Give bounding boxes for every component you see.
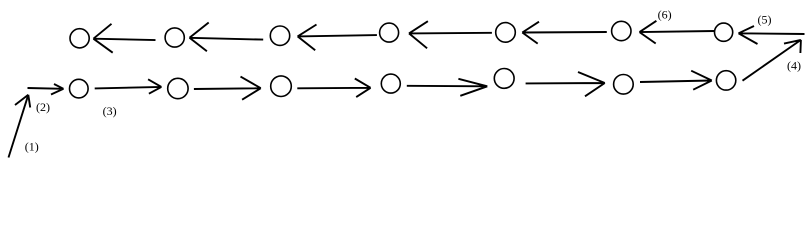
svg-text:(5): (5) bbox=[758, 13, 772, 27]
arrow T5 to T4 bbox=[409, 21, 492, 48]
arrow T2 to T1 bbox=[93, 24, 155, 53]
svg-text:(1): (1) bbox=[25, 140, 39, 154]
node T4 bbox=[380, 23, 399, 42]
svg-text:(2): (2) bbox=[36, 100, 50, 114]
node T6 bbox=[612, 21, 631, 40]
node B2 bbox=[168, 78, 188, 98]
node B6 bbox=[614, 75, 634, 95]
node B7 bbox=[716, 71, 735, 90]
arrow T7 to T6 bbox=[640, 21, 715, 44]
node T5 bbox=[496, 23, 516, 43]
arrow T3 to T2 bbox=[190, 23, 264, 52]
svg-text:(6): (6) bbox=[658, 8, 672, 22]
arrow 3 B1 to B2 bbox=[95, 79, 162, 93]
arrow 4 diagonal B7 to top right bbox=[743, 40, 801, 81]
node T7 bbox=[715, 23, 733, 41]
node B5 bbox=[494, 69, 514, 89]
arrow 2 into B1 bbox=[28, 84, 64, 95]
svg-text:(4): (4) bbox=[787, 59, 801, 73]
arrow B2 to B3 bbox=[194, 77, 261, 100]
arrow T6 to T5 bbox=[522, 22, 607, 44]
node B1 bbox=[70, 79, 89, 98]
arrow B5 to B6 bbox=[526, 72, 605, 96]
node T2 bbox=[165, 28, 184, 47]
arrow T4 to T3 bbox=[298, 25, 377, 51]
arrow 5 into T7 bbox=[739, 26, 805, 44]
svg-text:(3): (3) bbox=[103, 104, 117, 118]
arrow B6 to B7 bbox=[640, 71, 712, 90]
node B4 bbox=[381, 74, 400, 93]
arrow B3 to B4 bbox=[297, 79, 370, 98]
node B3 bbox=[271, 76, 292, 97]
node T1 bbox=[70, 29, 89, 48]
node T3 bbox=[270, 26, 289, 45]
arrow B4 to B5 bbox=[407, 79, 488, 96]
arrow 1 entry diagonal bbox=[9, 95, 31, 158]
